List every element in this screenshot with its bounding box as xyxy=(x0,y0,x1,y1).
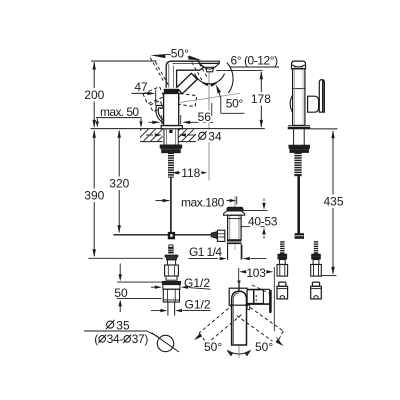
dim 390 line xyxy=(93,131,95,189)
drain nut xyxy=(227,240,242,244)
side lever foot xyxy=(308,96,319,112)
svg-text:34: 34 xyxy=(208,130,222,144)
label dia34 xyxy=(196,130,224,143)
hose xyxy=(297,176,300,233)
svg-text:34-: 34- xyxy=(107,332,124,346)
thin leader line xyxy=(180,93,240,102)
dim 178 line xyxy=(260,72,262,92)
body front xyxy=(164,94,179,126)
front mounting nut xyxy=(160,145,181,148)
dim max50 arrows xyxy=(96,119,98,122)
50deg right leader xyxy=(220,98,222,113)
popup tip thread xyxy=(168,247,174,253)
swivel arc xyxy=(195,74,225,84)
counter surface right xyxy=(178,128,264,130)
svg-text:50°: 50° xyxy=(255,340,273,354)
label dia35 xyxy=(107,321,114,328)
svg-text:40-53: 40-53 xyxy=(248,214,278,228)
dim50 ticks xyxy=(117,281,162,283)
handle body right xyxy=(247,290,253,304)
aerator centerline xyxy=(208,72,210,180)
drain tailpiece xyxy=(227,244,229,260)
spout front inner lines xyxy=(168,64,170,89)
arm right arrow xyxy=(276,339,284,346)
aerator front xyxy=(199,61,219,63)
counter bottom right xyxy=(178,141,196,143)
svg-text:G1/2: G1/2 xyxy=(184,276,210,290)
side threaded rod xyxy=(294,152,301,176)
svg-text:50°: 50° xyxy=(226,97,244,111)
4053 arrows xyxy=(263,199,265,202)
side base flange xyxy=(288,125,310,127)
dashed aerator right xyxy=(178,93,196,106)
svg-text:(: ( xyxy=(94,332,98,346)
dim 320 line xyxy=(118,131,120,177)
side body xyxy=(293,69,305,126)
drain flange xyxy=(224,211,245,215)
popup band xyxy=(166,276,177,280)
spout front xyxy=(166,61,204,89)
svg-text:47: 47 xyxy=(134,80,148,94)
svg-text:50°: 50° xyxy=(171,47,189,61)
G12u left arrow xyxy=(151,286,156,288)
side shank xyxy=(293,129,295,145)
side cartridge circle xyxy=(290,95,293,113)
svg-text:118: 118 xyxy=(181,166,200,180)
drain centerline xyxy=(234,196,236,210)
svg-text:178: 178 xyxy=(251,92,271,106)
50deg top left arrow xyxy=(166,53,172,56)
svg-text:6° (0-12°): 6° (0-12°) xyxy=(231,53,279,67)
svg-text:G1 1/4: G1 1/4 xyxy=(189,245,222,259)
svg-text:320: 320 xyxy=(109,177,129,191)
arm left arrow xyxy=(194,333,202,340)
handle arm xyxy=(232,291,247,345)
svg-text:37): 37) xyxy=(132,332,149,346)
svg-text:35: 35 xyxy=(116,318,130,332)
dashed spout right xyxy=(197,59,208,78)
popup hex xyxy=(165,265,179,276)
handle bar dark xyxy=(270,290,272,313)
base front xyxy=(161,126,182,129)
cap nut 1 xyxy=(279,282,286,286)
svg-text:50°: 50° xyxy=(204,340,222,354)
50deg right underline xyxy=(221,112,245,114)
lever front xyxy=(177,73,198,94)
rod junction xyxy=(168,232,175,239)
handle rod xyxy=(238,281,240,292)
dashed stub upper right xyxy=(252,285,272,295)
50deg top right arrow xyxy=(188,56,190,59)
hole circle xyxy=(157,335,173,351)
dim 435 line xyxy=(332,131,334,195)
svg-text:390: 390 xyxy=(84,189,104,203)
G12l left arrow xyxy=(151,310,161,312)
side mounting nut xyxy=(289,145,310,148)
4053 tick bottom xyxy=(240,226,267,228)
hose connector 2 xyxy=(314,241,318,254)
svg-text:max. 50: max. 50 xyxy=(100,105,139,119)
435 bottom tick xyxy=(321,275,337,277)
popup neck xyxy=(167,260,175,265)
103 left ext xyxy=(238,268,240,280)
counter bottom left xyxy=(140,141,163,143)
dashed spout left xyxy=(150,58,164,83)
rod cone xyxy=(211,232,217,239)
G12l right arrow xyxy=(175,309,182,312)
drain plug xyxy=(227,207,243,211)
G114 ext lines xyxy=(227,245,229,259)
svg-text:max.180: max.180 xyxy=(181,196,225,210)
side spout cap xyxy=(292,61,306,69)
counter hatch left xyxy=(113,99,189,175)
dashed aerator left xyxy=(143,87,164,104)
svg-text:103: 103 xyxy=(246,266,266,280)
hole diagonal xyxy=(152,333,180,352)
56 ext lines xyxy=(161,115,163,125)
popup hook xyxy=(156,106,163,124)
popup collar xyxy=(165,255,178,260)
counter surface left xyxy=(91,128,163,130)
popup rod vert xyxy=(170,178,172,232)
G114 arrows xyxy=(189,258,219,260)
conn disc xyxy=(162,282,180,285)
dim 200 line xyxy=(93,62,95,88)
handle centerline xyxy=(238,346,240,358)
103 right ext xyxy=(273,267,275,331)
shank front xyxy=(163,129,165,145)
side counter line xyxy=(310,128,337,130)
collar front xyxy=(164,88,179,93)
ref line spout top xyxy=(91,60,157,62)
ref line 390 bottom xyxy=(89,257,164,259)
rod clamp xyxy=(217,230,224,241)
threaded rod front xyxy=(168,153,174,178)
dim 103 xyxy=(239,270,246,273)
handle escutcheon xyxy=(229,288,247,305)
dia35 leader xyxy=(84,330,147,332)
cap nut 2 xyxy=(312,282,319,286)
popup rod horizontal xyxy=(114,234,212,236)
tilt arc xyxy=(227,63,233,94)
hose end xyxy=(295,233,304,239)
shank dot xyxy=(169,130,172,133)
dim max50 line xyxy=(96,117,142,119)
svg-text:56: 56 xyxy=(198,110,212,124)
dashed arm left xyxy=(199,305,233,333)
svg-text:200: 200 xyxy=(84,88,104,102)
dia34 arrows xyxy=(146,134,153,136)
conn body xyxy=(163,289,179,302)
hose connector 1 xyxy=(280,241,284,254)
G12u right arrow xyxy=(181,286,188,289)
svg-text:G1/2: G1/2 xyxy=(185,297,211,311)
svg-text:435: 435 xyxy=(323,195,343,209)
handle body edges xyxy=(247,288,270,290)
conn tube xyxy=(167,302,169,316)
outlet ref line xyxy=(216,69,263,71)
dashed arm right xyxy=(245,304,283,331)
counter hatch right xyxy=(151,100,224,173)
dim max180 xyxy=(156,200,164,202)
handle arc xyxy=(227,350,250,354)
handle small tab xyxy=(247,305,250,310)
side lever bar xyxy=(319,80,324,113)
4053 tick top xyxy=(241,210,267,212)
dim 118 xyxy=(175,172,181,174)
dim 47 line xyxy=(132,92,149,94)
drain body xyxy=(228,215,242,240)
6deg ref line xyxy=(230,66,279,68)
svg-text:50: 50 xyxy=(114,286,128,300)
dim 56 line xyxy=(189,121,213,123)
dim50 arrows xyxy=(119,264,121,275)
